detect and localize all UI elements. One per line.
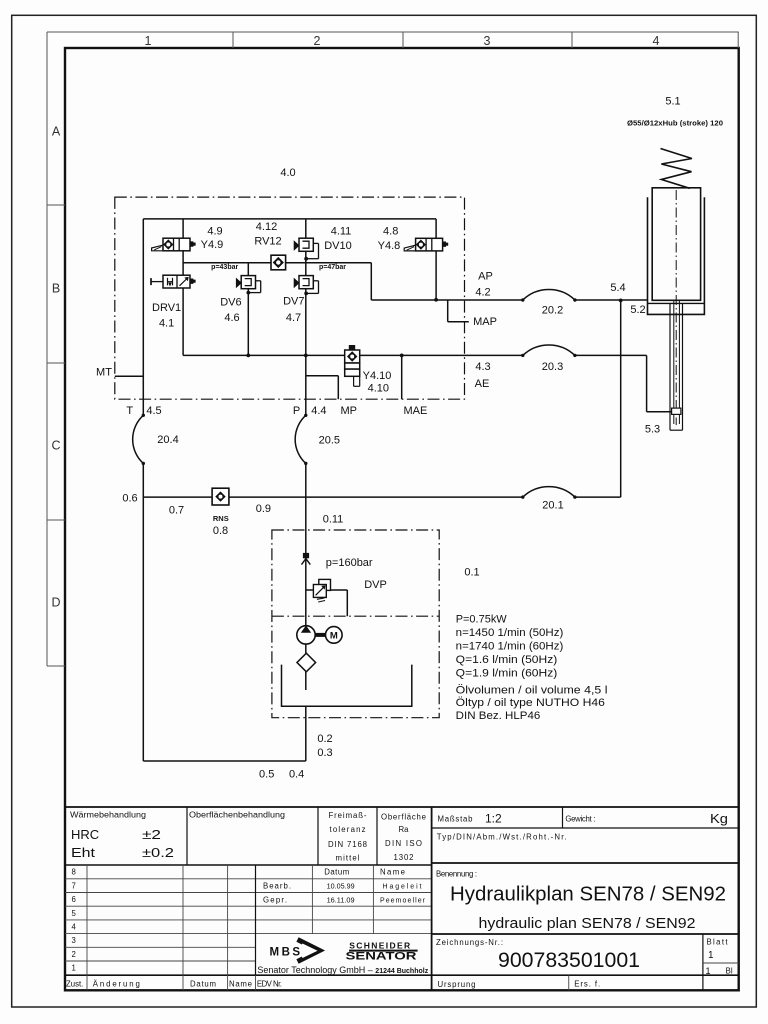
svg-text:DIN Bez. HLP46: DIN Bez. HLP46 [456,710,541,722]
svg-text:4.10: 4.10 [368,383,389,395]
svg-text:5.1: 5.1 [665,96,680,108]
svg-text:1:2: 1:2 [485,811,502,825]
svg-text:SCHNEIDER: SCHNEIDER [349,940,410,950]
svg-text:HRC: HRC [71,827,99,842]
svg-text:1: 1 [708,950,714,961]
svg-text:10.05.99: 10.05.99 [327,884,355,891]
svg-text:MBS: MBS [270,946,303,958]
svg-text:4.12: 4.12 [256,221,277,233]
svg-text:4.1: 4.1 [159,317,174,329]
svg-text:4.7: 4.7 [286,312,301,324]
svg-text:0.11: 0.11 [323,514,344,526]
svg-text:Oberflächenbehandlung: Oberflächenbehandlung [189,811,285,820]
svg-text:n=1740 1/min (60Hz): n=1740 1/min (60Hz) [456,640,564,652]
svg-text:8: 8 [72,868,76,877]
svg-text:AP: AP [478,270,493,282]
svg-text:Öltyp / oil type NUTHO H46: Öltyp / oil type NUTHO H46 [456,697,605,709]
svg-text:±2: ±2 [142,828,161,842]
svg-text:MP: MP [340,405,357,417]
svg-text:4.4: 4.4 [311,405,326,417]
svg-text:DV7: DV7 [283,296,304,308]
svg-text:20.1: 20.1 [542,499,563,511]
svg-text:Q=1.6 l/min (50Hz): Q=1.6 l/min (50Hz) [456,654,558,666]
svg-text:toleranz: toleranz [330,825,366,834]
svg-text:0.8: 0.8 [213,525,228,537]
svg-text:20.4: 20.4 [157,434,178,446]
svg-text:Freimaß-: Freimaß- [329,811,367,820]
svg-text:0.4: 0.4 [289,769,304,781]
svg-text:DIN ISO: DIN ISO [385,839,422,848]
svg-text:p=43bar: p=43bar [211,264,238,271]
svg-text:D: D [51,596,60,610]
svg-text:Ers. f.: Ers. f. [574,979,600,988]
svg-text:RV12: RV12 [254,236,281,248]
svg-text:4.0: 4.0 [280,167,295,179]
svg-text:4: 4 [72,923,77,932]
svg-text:4.6: 4.6 [224,312,239,324]
svg-text:Wärmebehandlung: Wärmebehandlung [70,811,146,820]
svg-text:4.2: 4.2 [475,286,490,298]
svg-text:Bl: Bl [726,967,733,976]
svg-text:Hydraulikplan SEN78 / SEN92: Hydraulikplan SEN78 / SEN92 [450,884,726,906]
svg-text:Name: Name [380,868,405,877]
svg-text:4.5: 4.5 [146,405,161,417]
svg-text:Oberfläche: Oberfläche [381,813,426,822]
svg-text:Zust.: Zust. [66,979,83,988]
svg-text:B: B [52,282,60,296]
svg-text:4: 4 [653,34,660,48]
svg-text:AE: AE [475,378,490,390]
svg-text:0.2: 0.2 [317,733,332,745]
svg-text:mittel: mittel [336,854,360,863]
svg-text:Eht: Eht [71,845,95,860]
svg-text:900783501001: 900783501001 [498,949,640,972]
svg-text:16.11.09: 16.11.09 [327,897,355,904]
svg-text:P=0.75kW: P=0.75kW [456,613,508,625]
svg-text:5.4: 5.4 [610,282,625,294]
svg-text:p=47bar: p=47bar [319,264,346,271]
svg-text:3: 3 [72,936,76,945]
svg-text:Kg: Kg [710,812,728,826]
svg-text:7: 7 [72,881,76,890]
svg-text:2: 2 [72,950,76,959]
svg-text:5: 5 [72,909,77,918]
svg-text:SENATOR: SENATOR [346,951,417,963]
svg-text:Typ/DIN/Abm./Wst./Roht.-Nr.: Typ/DIN/Abm./Wst./Roht.-Nr. [437,833,567,842]
svg-text:P: P [293,405,300,417]
svg-text:DV10: DV10 [324,240,352,252]
svg-text:1: 1 [145,34,152,48]
svg-text:MT: MT [96,367,112,379]
svg-text:Ø55/Ø12xHub (stroke) 120: Ø55/Ø12xHub (stroke) 120 [627,121,723,128]
svg-text:4.11: 4.11 [331,225,352,237]
svg-text:M: M [330,631,338,642]
svg-text:4.3: 4.3 [475,361,490,373]
svg-text:Ra: Ra [399,825,410,834]
svg-text:20.3: 20.3 [542,361,563,373]
svg-text:0.6: 0.6 [122,492,137,504]
svg-text:20.5: 20.5 [319,434,340,446]
svg-text:5.2: 5.2 [630,304,645,316]
svg-text:DIN 7168: DIN 7168 [328,840,367,849]
svg-text:Gewicht :: Gewicht : [565,814,595,823]
svg-text:Y4.9: Y4.9 [201,239,224,251]
svg-text:4.9: 4.9 [207,225,222,237]
svg-text:hydraulic plan SEN78 / SEN92: hydraulic plan SEN78 / SEN92 [479,916,696,932]
svg-text:Maßstab: Maßstab [438,814,474,823]
svg-text:n=1450 1/min (50Hz): n=1450 1/min (50Hz) [456,627,564,639]
svg-text:MAE: MAE [403,405,427,417]
svg-text:Datum: Datum [190,979,216,988]
svg-text:5.3: 5.3 [645,423,660,435]
svg-text:DV6: DV6 [220,297,241,309]
svg-text:Name: Name [229,979,252,988]
svg-text:DVP: DVP [364,579,387,591]
svg-text:3: 3 [484,34,491,48]
svg-text:4.8: 4.8 [383,225,398,237]
svg-text:RNS: RNS [213,514,229,523]
svg-text:Y4.8: Y4.8 [378,240,401,252]
svg-text:DRV1: DRV1 [152,302,181,314]
svg-text:Datum: Datum [324,868,349,877]
svg-text:T: T [126,405,133,417]
svg-text:1302: 1302 [394,853,414,862]
svg-text:Benennung :: Benennung : [436,869,477,878]
svg-text:Y4.10: Y4.10 [363,370,392,382]
svg-text:p=160bar: p=160bar [326,557,373,569]
svg-text:±0.2: ±0.2 [142,846,174,860]
svg-text:0.7: 0.7 [169,504,184,516]
svg-text:0.1: 0.1 [464,566,479,578]
svg-text:A: A [52,125,61,139]
svg-text:2: 2 [314,34,321,48]
svg-text:Bearb.: Bearb. [263,882,291,891]
svg-text:Zeichnungs-Nr.:: Zeichnungs-Nr.: [436,938,503,947]
svg-text:1: 1 [706,966,711,976]
svg-text:Peemoeller: Peemoeller [380,897,426,904]
svg-text:0.9: 0.9 [256,503,271,515]
svg-text:0.5: 0.5 [259,769,274,781]
svg-text:1: 1 [72,964,76,973]
svg-text:MAP: MAP [473,316,497,328]
svg-text:Ölvolumen / oil volume 4,5 l: Ölvolumen / oil volume 4,5 l [456,684,608,696]
svg-text:Ursprung: Ursprung [438,980,476,989]
svg-text:0.3: 0.3 [317,747,332,759]
svg-text:Änderung: Änderung [93,979,140,988]
svg-text:20.2: 20.2 [542,305,563,317]
svg-text:Blatt: Blatt [707,937,729,946]
svg-text:6: 6 [72,895,76,904]
svg-text:Q=1.9 l/min (60Hz): Q=1.9 l/min (60Hz) [456,667,558,679]
svg-text:Gepr.: Gepr. [263,895,287,904]
svg-text:C: C [51,439,60,453]
svg-text:EDV Nr.: EDV Nr. [257,979,282,988]
